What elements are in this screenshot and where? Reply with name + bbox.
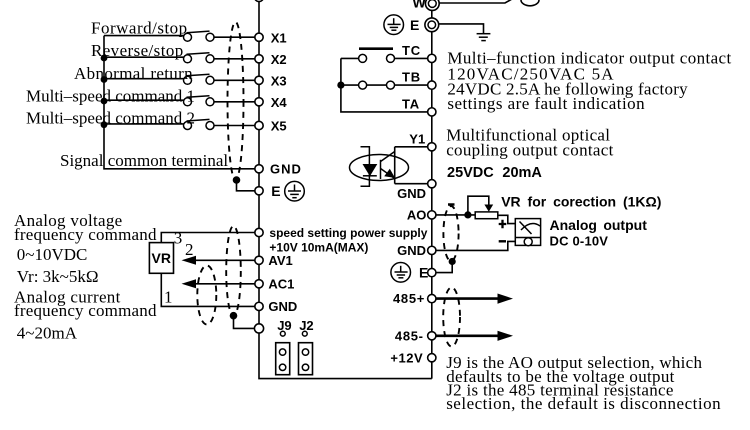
svg-text:2: 2: [185, 240, 194, 259]
svg-text:Signal common terminal: Signal common terminal: [60, 151, 228, 170]
svg-text:DC 0-10V: DC 0-10V: [550, 234, 609, 249]
svg-text:AV1: AV1: [268, 253, 292, 268]
svg-text:+12V: +12V: [390, 350, 423, 365]
svg-text:4~20mA: 4~20mA: [17, 324, 78, 343]
svg-text:TB: TB: [402, 70, 421, 85]
svg-text:Multi–speed command 2: Multi–speed command 2: [26, 109, 195, 128]
svg-text:Abnormal return: Abnormal return: [74, 64, 193, 83]
svg-text:485+: 485+: [393, 291, 425, 306]
svg-text:E: E: [410, 17, 419, 33]
svg-text:frequency command: frequency command: [14, 301, 157, 320]
svg-text:X1: X1: [271, 30, 287, 45]
svg-text:25VDC: 25VDC: [447, 165, 494, 181]
svg-text:GND: GND: [397, 243, 426, 258]
svg-text:GND: GND: [270, 162, 302, 177]
svg-text:frequency command: frequency command: [14, 225, 157, 244]
svg-text:GND: GND: [397, 186, 426, 201]
svg-text:speed setting power supply: speed setting power supply: [269, 226, 427, 240]
svg-text:Y1: Y1: [409, 132, 425, 147]
svg-text:0~10VDC: 0~10VDC: [17, 245, 88, 264]
svg-text:X3: X3: [271, 74, 287, 89]
svg-text:1: 1: [164, 288, 173, 307]
svg-text:VR: VR: [152, 250, 171, 266]
svg-text:J9: J9: [277, 318, 291, 333]
svg-text:J2: J2: [299, 318, 313, 333]
svg-text:TA: TA: [402, 96, 420, 111]
svg-text:485-: 485-: [395, 328, 424, 343]
svg-text:Multi–speed command 1: Multi–speed command 1: [26, 87, 195, 106]
svg-text:Analog output: Analog output: [550, 217, 648, 233]
svg-text:20mA: 20mA: [502, 165, 542, 181]
svg-text:settings are fault indication: settings are fault indication: [447, 94, 645, 113]
svg-text:AC1: AC1: [268, 277, 294, 292]
svg-text:3: 3: [174, 229, 183, 248]
svg-text:E: E: [271, 183, 280, 199]
svg-text:coupling output contact: coupling output contact: [446, 140, 613, 159]
svg-text:GND: GND: [268, 299, 297, 314]
svg-text:Reverse/stop: Reverse/stop: [91, 41, 184, 60]
svg-text:VR for corection (1KΩ): VR for corection (1KΩ): [501, 194, 661, 210]
svg-text:X4: X4: [271, 95, 288, 110]
svg-text:AO: AO: [407, 207, 427, 222]
svg-text:Forward/stop: Forward/stop: [91, 19, 188, 38]
svg-text:X2: X2: [271, 52, 287, 67]
svg-text:E: E: [419, 265, 428, 281]
svg-text:Vr: 3k~5kΩ: Vr: 3k~5kΩ: [17, 267, 99, 286]
svg-text:W: W: [413, 0, 427, 11]
svg-text:TC: TC: [402, 43, 421, 58]
svg-text:X5: X5: [271, 119, 287, 134]
svg-text:selection, the default is disc: selection, the default is disconnection: [446, 394, 721, 413]
